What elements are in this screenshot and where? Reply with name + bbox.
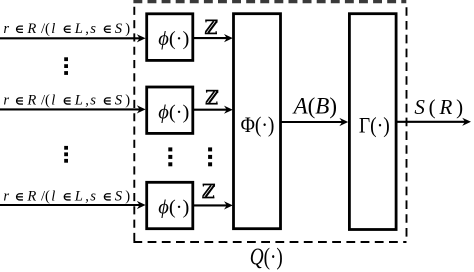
svg-text:): ) [125, 21, 130, 37]
svg-text:/(: /( [41, 93, 50, 109]
svg-text:L: L [74, 189, 83, 205]
svg-text:/(: /( [41, 189, 50, 205]
svg-text:L: L [74, 21, 83, 37]
wire: input arrow 1 [0, 34, 146, 42]
vdots left lower [64, 146, 68, 163]
svg-text:L: L [74, 93, 83, 109]
block phi2 [147, 87, 193, 133]
svg-text:,: , [85, 21, 89, 37]
svg-text:ϕ(·): ϕ(·) [158, 102, 189, 124]
vdots left upper [64, 57, 68, 75]
svg-text:r: r [3, 93, 9, 109]
block Gamma [349, 14, 396, 230]
wire: Z arrow 1 (phi1 to Phi) [194, 34, 233, 42]
svg-text:l: l [51, 21, 55, 37]
svg-text:Γ(·): Γ(·) [359, 112, 390, 138]
label Z3 [202, 184, 215, 197]
svg-text:ϕ(·): ϕ(·) [158, 197, 189, 219]
svg-text:r: r [3, 189, 9, 205]
svg-text:S: S [115, 93, 123, 109]
svg-text:R: R [26, 93, 36, 109]
input label 2 [3, 93, 130, 109]
input label 1: r in R/(l in L, s in S) [3, 21, 130, 37]
svg-text:l: l [51, 189, 55, 205]
svg-text:/(: /( [41, 21, 50, 37]
dashed box Q: top edge [133, 0, 406, 3]
svg-text:S(R): S(R) [414, 95, 467, 119]
block phi1 [147, 14, 193, 61]
dashed box Q: right edge [406, 7, 408, 241]
svg-text:,: , [85, 93, 89, 109]
svg-text:ϕ(·): ϕ(·) [158, 28, 189, 50]
svg-text:S: S [115, 189, 123, 205]
svg-text:r: r [3, 21, 9, 37]
input label 3 [3, 189, 130, 205]
label Z1 [205, 20, 218, 33]
svg-text:S: S [115, 21, 123, 37]
vdots between Z labels [208, 147, 212, 166]
svg-text:l: l [51, 93, 55, 109]
svg-text:s: s [90, 21, 96, 37]
svg-text:): ) [125, 93, 130, 109]
wire: S(R) output arrow [398, 118, 472, 126]
wire: Z arrow 2 (phi2 to Phi) [194, 106, 233, 114]
svg-text:,: , [85, 189, 89, 205]
wire: A(B) arrow (Phi to Gamma) [281, 118, 348, 126]
dashed box Q: bottom edge [133, 241, 406, 243]
svg-text:R: R [26, 21, 36, 37]
svg-text:): ) [125, 189, 130, 205]
block phi3 [147, 182, 193, 228]
svg-text:Q(·): Q(·) [250, 243, 283, 270]
wire: input arrow 3 [0, 201, 146, 209]
block Phi [234, 14, 281, 229]
svg-text:A(B): A(B) [292, 94, 337, 119]
dashed box Q: left edge [133, 7, 135, 242]
vdots between phi blocks [168, 147, 172, 166]
label Z2 [206, 91, 219, 104]
wire: Z arrow 3 (phi3 to Phi) [194, 201, 233, 209]
svg-text:R: R [26, 189, 36, 205]
svg-text:s: s [90, 93, 96, 109]
svg-text:s: s [90, 189, 96, 205]
wire: input arrow 2 [0, 105, 146, 113]
svg-text:Φ(·): Φ(·) [241, 112, 275, 138]
